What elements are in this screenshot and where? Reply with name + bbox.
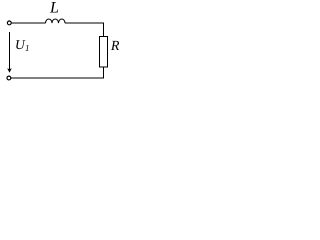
- terminal node (top-left): [7, 21, 11, 25]
- svg-text:L: L: [49, 0, 59, 16]
- wire bottom segment: [11, 77, 104, 79]
- terminal node (bottom-left): [7, 76, 11, 80]
- voltage arrow U1 shaft: [9, 32, 11, 70]
- svg-text:R: R: [110, 39, 120, 54]
- svg-text:U1: U1: [15, 37, 30, 53]
- voltage arrow U1 head: [7, 68, 12, 73]
- wire right vertical (bottom): [103, 67, 105, 79]
- wire top-right segment: [65, 22, 104, 24]
- resistor R: [100, 37, 108, 68]
- wire right vertical (top): [103, 23, 105, 37]
- inductor L coil: [46, 19, 66, 23]
- wire top-left segment: [12, 22, 46, 24]
